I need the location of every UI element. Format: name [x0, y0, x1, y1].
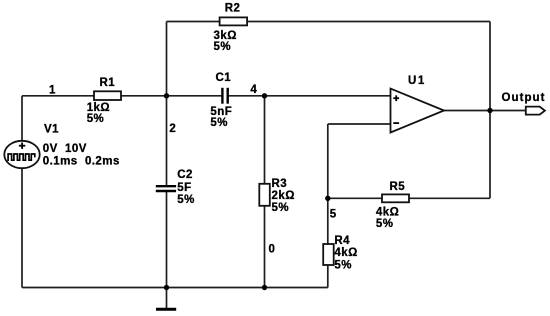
wire mid vertical lower (C2 bottom to ground rail) — [166, 191, 168, 288]
wire top net from node2 to right rail — [167, 21, 491, 23]
wire R4 vertical — [327, 198, 329, 287]
ground — [156, 288, 176, 310]
junction ground rail at C2 — [164, 285, 169, 290]
svg-text:5%: 5% — [376, 218, 394, 230]
wire node4/R3 vertical — [264, 96, 266, 288]
wire op-amp inverting input horizontal — [328, 123, 391, 125]
svg-text:R5: R5 — [390, 181, 406, 193]
svg-text:V1: V1 — [44, 124, 59, 136]
svg-text:5%: 5% — [214, 41, 232, 53]
svg-text:2: 2 — [169, 123, 176, 135]
svg-text:R2: R2 — [225, 2, 241, 14]
resistor R1 — [87, 77, 121, 125]
svg-text:0V 10V: 0V 10V — [43, 143, 87, 155]
svg-text:0: 0 — [269, 243, 276, 255]
svg-text:5%: 5% — [177, 194, 195, 206]
wire R5 row — [328, 197, 490, 199]
svg-text:R3: R3 — [272, 178, 288, 190]
resistor R4 — [323, 235, 358, 272]
wire left rail above V1 — [21, 96, 23, 141]
svg-text:C1: C1 — [216, 72, 232, 84]
pulse source V1 — [4, 124, 120, 169]
svg-text:5F: 5F — [177, 182, 191, 194]
wire left rail below V1 — [21, 168, 23, 287]
resistor R5 — [376, 181, 409, 230]
svg-text:5: 5 — [330, 209, 337, 221]
capacitor C2 — [156, 169, 195, 206]
wire main row left of C1 — [22, 95, 222, 97]
svg-text:4: 4 — [250, 84, 257, 96]
svg-text:5%: 5% — [272, 202, 290, 214]
svg-text:2kΩ: 2kΩ — [272, 190, 295, 202]
capacitor C1 — [210, 72, 232, 129]
resistor R3 — [259, 178, 295, 214]
junction node 5 — [325, 196, 330, 201]
svg-text:4kΩ: 4kΩ — [334, 247, 357, 259]
svg-text:5%: 5% — [210, 117, 228, 129]
junction output — [487, 108, 492, 113]
wire bottom rail — [22, 287, 328, 289]
svg-text:0.1ms 0.2ms: 0.1ms 0.2ms — [43, 156, 120, 168]
junction node 2 — [164, 93, 169, 98]
svg-text:5%: 5% — [87, 113, 105, 125]
svg-text:C2: C2 — [177, 169, 193, 181]
junction ground rail at R3 — [262, 285, 267, 290]
svg-text:U1: U1 — [408, 75, 426, 87]
wire op-amp output — [444, 110, 526, 112]
resistor R2 — [214, 2, 248, 53]
wire main row right of C1 to op-amp — [228, 95, 391, 97]
svg-text:R4: R4 — [334, 235, 350, 247]
svg-text:R1: R1 — [100, 77, 116, 89]
svg-text:Output: Output — [502, 92, 546, 104]
wire mid vertical upper (node 2) — [166, 22, 168, 187]
wire inverting feedback vertical to node 5 — [327, 124, 329, 198]
svg-text:5%: 5% — [334, 260, 352, 272]
op-amp U1 — [391, 75, 445, 133]
output port symbol — [502, 92, 546, 115]
wire right rail vertical — [489, 22, 491, 199]
svg-text:1: 1 — [49, 85, 56, 97]
svg-text:4kΩ: 4kΩ — [376, 207, 399, 219]
junction node 4 — [262, 93, 267, 98]
